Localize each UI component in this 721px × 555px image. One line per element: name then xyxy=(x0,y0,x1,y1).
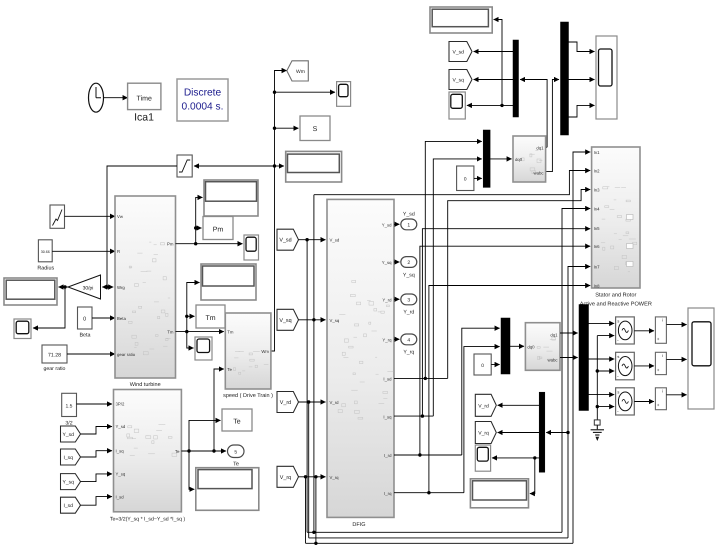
svg-text:Wind turbine: Wind turbine xyxy=(130,382,161,388)
wire gain output to display left xyxy=(59,286,69,288)
wire Wm line into display top xyxy=(275,165,284,167)
wire 0 to mux in3 xyxy=(474,177,482,179)
junction I_rd xyxy=(418,453,421,456)
wire loop left vertical 5 xyxy=(315,477,317,544)
wire Te branch down to display xyxy=(189,451,194,489)
svg-text:0: 0 xyxy=(481,363,484,369)
wire neutral to source A minus xyxy=(597,335,614,337)
scope block three phase currents xyxy=(688,308,714,409)
wire measurement B to scope xyxy=(666,358,686,360)
wire mux to source C plus xyxy=(589,394,615,396)
wire Pm branch to Pm block xyxy=(196,227,202,229)
svg-text:0: 0 xyxy=(464,177,467,183)
subsystem speed Drive Train xyxy=(225,313,271,389)
junction V_rq a xyxy=(304,475,307,478)
subsystem Wind turbine xyxy=(115,196,176,378)
svg-text:Y_sd: Y_sd xyxy=(63,432,75,438)
mux voltage abc xyxy=(561,22,569,135)
display block Te value xyxy=(196,468,259,511)
junction Pm block xyxy=(194,226,197,229)
constant 71.28 gear ratio xyxy=(42,345,67,363)
wire demux out to V_sq goto xyxy=(474,79,513,81)
svg-text:In7: In7 xyxy=(594,265,601,270)
svg-text:dq0: dq0 xyxy=(527,344,535,349)
mux dq0 input xyxy=(483,130,490,187)
junction neutral C xyxy=(596,405,599,408)
junction neutral B xyxy=(596,369,599,372)
svg-text:+: + xyxy=(657,368,660,373)
svg-text:Ica1: Ica1 xyxy=(134,112,154,124)
svg-text:In8: In8 xyxy=(594,283,601,288)
svg-text:dq0: dq0 xyxy=(515,157,523,162)
svg-text:V_sd: V_sd xyxy=(330,238,340,243)
wire demux to V_rd goto xyxy=(498,404,540,406)
wire Vw to Wind turbine xyxy=(65,215,116,217)
wire neutral to source C minus xyxy=(597,406,614,408)
svg-text:V_rq: V_rq xyxy=(280,475,291,481)
svg-text:Y_rd: Y_rd xyxy=(403,310,414,316)
wire Tm branch up to display xyxy=(187,283,200,332)
wire Wm line into saturation xyxy=(194,165,275,167)
wire mux out 2 to scope xyxy=(569,79,595,81)
svg-text:Wrg: Wrg xyxy=(117,285,125,290)
svg-text:Wm: Wm xyxy=(261,349,269,354)
ground node square xyxy=(594,420,600,425)
wire I_rd branch to rotor mux in1 xyxy=(462,328,500,455)
wire loop left vertical 1 xyxy=(305,477,307,544)
svg-text:Radius: Radius xyxy=(37,266,54,272)
svg-text:30.66: 30.66 xyxy=(41,250,50,254)
wire mux out 1 to scope xyxy=(569,42,595,52)
svg-text:3P/2: 3P/2 xyxy=(116,402,125,407)
svg-text:71.28: 71.28 xyxy=(48,353,61,359)
junction Pm xyxy=(194,242,197,245)
wire loop bottom outer xyxy=(306,542,574,544)
display block top right xyxy=(430,7,492,33)
subsystem DFIG xyxy=(327,199,394,517)
from tag I_sq xyxy=(61,449,81,465)
wire Y_rd to port 3 xyxy=(394,298,399,300)
display block top (Wm value) xyxy=(286,151,342,182)
junction Wm scope xyxy=(273,91,276,94)
svg-text:Te=3/2(Y_sq * I_sd~Y_sd *I_sq: Te=3/2(Y_sq * I_sd~Y_sd *I_sq ) xyxy=(110,517,186,523)
wire branch to display xyxy=(530,458,535,494)
wire measurement C to scope xyxy=(666,394,686,396)
S block (slip) xyxy=(300,116,330,141)
wire loop left vertical 3 xyxy=(308,402,310,538)
from tag V_sq xyxy=(277,309,299,330)
wire Te branch to speed block Te input xyxy=(214,369,224,451)
junction Tm xyxy=(185,330,188,333)
wire I_sq row xyxy=(394,415,433,417)
wire Tm branch to Tm block xyxy=(187,315,195,317)
current measurement B xyxy=(655,352,666,374)
junction Tm block xyxy=(185,315,188,318)
wire loop bottom middle xyxy=(309,537,568,539)
junction Wm saturation row xyxy=(273,164,276,167)
junction demux display branch xyxy=(533,456,536,459)
wire I_rd branch to In6 xyxy=(420,246,590,455)
junction I_rq xyxy=(427,491,430,494)
junction rotor demux feed xyxy=(566,431,569,434)
junction gain output xyxy=(63,285,66,288)
wire Beta to Wind turbine xyxy=(92,317,115,319)
svg-text:Y_sq: Y_sq xyxy=(63,480,75,486)
svg-text:Tm: Tm xyxy=(167,330,174,335)
goto tag V_rq xyxy=(475,422,496,444)
wire I_rq branch to In8 xyxy=(429,286,590,493)
svg-text:S: S xyxy=(313,126,318,133)
junction V_sd xyxy=(305,238,308,241)
svg-text:Y_rq: Y_rq xyxy=(403,350,414,356)
wire Y_sd tag to Te subsystem xyxy=(81,427,113,435)
wire V_sq loop to In2 xyxy=(314,171,590,195)
svg-text:Te: Te xyxy=(233,462,239,468)
svg-text:V_sd: V_sd xyxy=(279,238,291,244)
svg-text:In2: In2 xyxy=(594,169,601,174)
from tag V_rq xyxy=(277,466,299,487)
wire I_sd row xyxy=(394,377,448,379)
from tag Y_sq xyxy=(61,474,81,490)
svg-text:Stator and Rotor: Stator and Rotor xyxy=(595,292,636,299)
wire demux to V_rq goto xyxy=(498,432,540,434)
wire source A to measurement A xyxy=(634,330,654,332)
from tag Y_sd xyxy=(61,426,81,442)
svg-text:i: i xyxy=(662,353,663,358)
svg-text:I_sd: I_sd xyxy=(383,377,392,382)
svg-text:Beta: Beta xyxy=(117,316,126,321)
svg-text:Active and Reactive POWER: Active and Reactive POWER xyxy=(580,301,652,308)
wire demux to scope xyxy=(492,457,539,459)
wire Wm from speed block up to Wm goto tag xyxy=(271,71,287,352)
constant 30.66 Radius xyxy=(38,240,52,262)
demux stator voltage xyxy=(513,40,519,117)
scope block Tm xyxy=(195,337,212,360)
wire gear ratio to Wind turbine xyxy=(67,353,115,355)
svg-text:Y_rq: Y_rq xyxy=(382,338,392,343)
wire mux out to dq0 block xyxy=(490,158,512,160)
wire mux out 3 to scope xyxy=(569,105,595,117)
Pm block (To Workspace) xyxy=(203,217,233,240)
svg-text:V_rq: V_rq xyxy=(330,475,340,480)
junction V_rd xyxy=(307,400,310,403)
svg-text:gear ratio: gear ratio xyxy=(117,352,136,357)
svg-text:s: s xyxy=(617,389,619,394)
svg-text:Tm: Tm xyxy=(227,330,234,335)
svg-text:R: R xyxy=(117,249,120,254)
wire Tm output to speed block xyxy=(176,331,224,333)
wire Y_sq to port 2 xyxy=(394,261,399,263)
wire I_sq tag to Te subsystem xyxy=(81,451,113,457)
wire 0 to rotor mux in3 xyxy=(491,364,499,366)
wire demux branch up to display xyxy=(494,20,502,106)
svg-text:dq1: dq1 xyxy=(536,145,544,150)
constant 0 (rotor) xyxy=(474,354,491,375)
wire Te output to port 5 xyxy=(181,450,226,452)
Te block (To Workspace) xyxy=(222,409,252,431)
current measurement C xyxy=(655,388,666,410)
wire demux out to V_sd goto xyxy=(474,51,513,53)
wire mux to source B plus xyxy=(589,358,615,360)
wire wabc out to source mux xyxy=(560,357,578,359)
wire I_rq branch to rotor mux in2 xyxy=(464,347,500,493)
clock source block xyxy=(89,83,104,112)
svg-text:Y_rd: Y_rd xyxy=(382,298,392,303)
wire I_sd up to mux in1 xyxy=(425,141,482,378)
svg-text:Y_sq: Y_sq xyxy=(382,260,392,265)
svg-text:5: 5 xyxy=(234,449,237,455)
svg-text:Y_sd: Y_sd xyxy=(382,223,392,228)
wire wabc output up into mux xyxy=(546,80,559,172)
saturation block xyxy=(177,155,192,177)
mux rotor currents xyxy=(501,318,510,374)
wire I_sq branch to In5 xyxy=(422,229,590,416)
transform block dq0 to abc (stator) xyxy=(513,136,546,182)
wire into gain input xyxy=(102,286,107,288)
wind speed ramp source block xyxy=(50,205,65,228)
display block rotor voltage value xyxy=(470,479,528,508)
wire V_sd to DFIG xyxy=(299,239,326,241)
wire loop bottom inner xyxy=(307,531,562,533)
goto tag V_sq xyxy=(449,70,472,90)
scope block stator voltages xyxy=(449,92,465,119)
svg-text:4: 4 xyxy=(407,337,410,343)
svg-text:speed ( Drive Train ): speed ( Drive Train ) xyxy=(223,393,273,399)
junction demux display xyxy=(500,104,503,107)
svg-text:I_sd: I_sd xyxy=(64,503,74,509)
svg-text:Te: Te xyxy=(233,419,241,426)
svg-text:dq1: dq1 xyxy=(550,332,558,337)
svg-text:I_rd: I_rd xyxy=(384,453,392,458)
svg-text:In3: In3 xyxy=(594,188,601,193)
wire dq1 output up into demux xyxy=(520,80,547,148)
wire loop middle up to In7 xyxy=(568,267,590,538)
junction loop bottom b xyxy=(314,542,317,545)
constant 1.5 xyxy=(62,393,77,416)
svg-text:wabc: wabc xyxy=(533,171,544,176)
output port 2 xyxy=(401,257,417,268)
wire neutral vertical xyxy=(596,336,598,420)
svg-text:V_rd: V_rd xyxy=(280,400,291,406)
svg-text:V_sd: V_sd xyxy=(453,50,465,56)
wire loop left vertical 4 xyxy=(313,195,315,533)
scope block rotor voltage xyxy=(475,445,490,471)
wire saturation output down to gear input node xyxy=(107,166,177,287)
wire Wm to scope top xyxy=(275,91,336,93)
ground symbol xyxy=(591,425,604,440)
svg-text:V_sq: V_sq xyxy=(330,318,340,323)
demux rotor voltages xyxy=(539,392,545,472)
svg-text:V_rq: V_rq xyxy=(478,431,489,437)
svg-text:Tm: Tm xyxy=(205,315,215,322)
junction loop bottom a xyxy=(312,531,315,534)
subsystem Stator and Rotor Active and Reactive POWER xyxy=(592,147,640,288)
svg-text:In1: In1 xyxy=(594,150,601,155)
svg-text:I_sq: I_sq xyxy=(383,414,392,419)
wire I_sq up to mux in2 xyxy=(433,159,482,416)
svg-text:V_rd: V_rd xyxy=(478,403,489,409)
output port 5 xyxy=(228,445,245,458)
wire V_rq to DFIG xyxy=(299,476,326,478)
svg-text:Time: Time xyxy=(137,95,152,103)
current measurement A xyxy=(655,317,666,343)
svg-text:Pm: Pm xyxy=(213,227,224,234)
subsystem Te calculation xyxy=(114,390,182,512)
svg-text:Beta: Beta xyxy=(79,333,90,339)
gain 30/pi xyxy=(68,275,101,299)
transform block dq0 to abc (rotor) xyxy=(525,323,560,371)
scope block Pm xyxy=(244,235,259,260)
svg-text:0.0004 s.: 0.0004 s. xyxy=(182,102,224,113)
svg-text:i: i xyxy=(662,318,663,323)
svg-text:i: i xyxy=(662,389,663,394)
svg-text:In4: In4 xyxy=(594,207,601,212)
wire rotor mux out to dq0 block xyxy=(510,345,524,347)
wire demux out to scope xyxy=(467,104,513,106)
output stubs on power block xyxy=(627,215,634,267)
junction I_sq xyxy=(421,414,424,417)
svg-text:Y_sq: Y_sq xyxy=(403,272,415,278)
Time block (To Workspace) xyxy=(128,83,161,109)
goto tag V_rd xyxy=(475,394,496,416)
goto tag V_sd xyxy=(449,42,472,62)
controlled voltage source C xyxy=(616,388,635,415)
scope block abc voltages xyxy=(596,36,617,119)
svg-text:1: 1 xyxy=(407,222,410,228)
svg-text:I_sd: I_sd xyxy=(116,494,125,499)
svg-text:Y_sd: Y_sd xyxy=(403,212,415,218)
wire clock to Time block xyxy=(104,97,128,99)
wire I_sd tag to Te subsystem xyxy=(81,497,113,506)
junction Te 2 xyxy=(212,449,215,452)
wire Radius to Wind turbine R xyxy=(52,250,115,252)
wire 1.5 to Te subsystem 3P2 xyxy=(77,403,113,405)
svg-text:In5: In5 xyxy=(594,226,601,231)
svg-text:1.5: 1.5 xyxy=(66,404,73,410)
output port 3 xyxy=(401,294,417,305)
svg-text:30/pi: 30/pi xyxy=(83,285,94,291)
svg-text:+: + xyxy=(657,403,660,408)
wire Y_sd to port 1 xyxy=(394,223,399,225)
goto tag Wm xyxy=(287,61,309,81)
wire neutral to source B minus xyxy=(597,370,614,372)
wire Pm output to scope xyxy=(176,243,243,245)
svg-text:s: s xyxy=(617,354,619,359)
junction Wm S xyxy=(273,127,276,130)
svg-text:I_sq: I_sq xyxy=(64,455,74,461)
wire I_rq row xyxy=(394,492,464,494)
wire gain output to scope left xyxy=(33,287,65,328)
svg-text:Y_sd: Y_sd xyxy=(116,424,126,429)
svg-text:Te: Te xyxy=(227,367,232,372)
Tm block (To Workspace) xyxy=(196,305,225,328)
scope block top (Wm) xyxy=(337,82,351,107)
from tag V_rd xyxy=(277,392,299,413)
wire into Wind turbine Wrg xyxy=(107,286,113,288)
scope block left small xyxy=(14,319,31,339)
wire I_sd branch to In3 xyxy=(448,190,591,379)
wire feed into rotor voltage demux xyxy=(546,432,568,434)
svg-text:Vw: Vw xyxy=(117,214,124,219)
svg-text:DFIG: DFIG xyxy=(352,522,365,528)
from tag V_sd xyxy=(277,229,299,250)
wire Y_rq to port 4 xyxy=(394,338,399,340)
svg-text:I_rq: I_rq xyxy=(384,491,392,496)
wire Y_sq tag to Te subsystem xyxy=(81,474,113,482)
Discrete solver info block xyxy=(177,79,228,121)
wire I_rd row xyxy=(394,454,462,456)
svg-text:2: 2 xyxy=(407,260,410,266)
controlled voltage source A xyxy=(616,317,635,344)
svg-text:+: + xyxy=(657,336,660,341)
display block left (rotor speed) xyxy=(4,278,57,305)
constant 0 Beta xyxy=(78,307,93,329)
output port 1 xyxy=(401,219,417,230)
svg-text:Wm: Wm xyxy=(296,69,305,75)
svg-text:Discrete: Discrete xyxy=(184,88,222,99)
wire Wm to S block xyxy=(275,127,299,129)
svg-text:s: s xyxy=(617,319,619,324)
junction V_sq xyxy=(312,318,315,321)
svg-text:Y_sq: Y_sq xyxy=(116,472,126,477)
junction I_sd xyxy=(424,377,427,380)
junction Te 1 xyxy=(187,449,190,452)
wire dq1 out to source mux xyxy=(560,332,578,334)
wire source C to measurement C xyxy=(634,401,654,403)
junction V_rq b xyxy=(314,475,317,478)
wire Pm branch up to display xyxy=(196,197,203,243)
svg-text:Pm: Pm xyxy=(167,242,174,247)
junction node Wrg xyxy=(105,285,108,288)
wire loop outer up to In1 xyxy=(573,152,590,543)
wire V_rd to DFIG xyxy=(299,401,326,403)
display block Pm value xyxy=(204,180,258,216)
wire loop inner up to In4 xyxy=(562,209,590,533)
svg-text:V_rd: V_rd xyxy=(330,400,340,405)
wire mux to source A plus xyxy=(589,322,615,324)
mux three phase source feed xyxy=(579,305,589,411)
wire Te branch up to Te block xyxy=(189,420,221,451)
controlled voltage source B xyxy=(616,352,635,380)
wire V_sq to DFIG xyxy=(299,319,326,321)
svg-text:wabc: wabc xyxy=(547,358,558,363)
constant 0 (top) xyxy=(457,166,474,191)
svg-text:gear ratio: gear ratio xyxy=(44,366,66,372)
svg-text:I_sq: I_sq xyxy=(116,448,125,453)
svg-text:In6: In6 xyxy=(594,244,601,249)
display block Tm value xyxy=(201,264,256,300)
svg-text:V_sq: V_sq xyxy=(453,78,465,84)
svg-text:3: 3 xyxy=(407,297,410,303)
wire Tm branch down to scope xyxy=(187,332,194,348)
wire measurement A to scope xyxy=(666,324,686,326)
from tag I_sd xyxy=(61,497,81,513)
svg-text:Te: Te xyxy=(175,449,180,454)
output port 4 xyxy=(401,334,417,345)
wire loop left vertical 2 xyxy=(306,240,308,533)
wire source B to measurement B xyxy=(634,365,654,367)
svg-text:V_sq: V_sq xyxy=(279,318,291,324)
wire dq1 stub xyxy=(546,146,548,148)
svg-text:0: 0 xyxy=(83,316,86,322)
